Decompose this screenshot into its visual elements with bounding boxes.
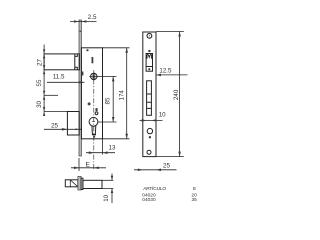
svg-text:13: 13	[109, 144, 116, 151]
latch bolt detail: head with bevel hatching	[65, 180, 78, 187]
svg-text:25: 25	[163, 163, 170, 170]
chain tick 95.5 extension	[44, 94, 58, 96]
svg-text:85: 85	[104, 97, 111, 104]
latch bolt seen in cutout	[147, 54, 152, 58]
vertical centerline (dash-dot)	[93, 70, 95, 171]
chain arrows	[43, 49, 45, 116]
dimension E	[71, 158, 106, 171]
dimension 12.5	[156, 67, 188, 76]
deadbolt segments	[147, 94, 152, 108]
latch detail dimension 10	[97, 174, 113, 204]
svg-text:E: E	[193, 186, 196, 192]
chain tick 111.5 extension (cylinder box top)	[44, 111, 79, 113]
front view: upper pin dot	[148, 50, 150, 52]
follower extension line to 85 dim	[97, 75, 117, 77]
dimension 25 (left)	[44, 122, 82, 130]
euro cylinder keyhole profile	[89, 117, 98, 134]
case top extension line to 174 dim	[103, 47, 130, 49]
latch rear stop block	[81, 72, 83, 76]
front view: top screw hole	[147, 33, 152, 38]
svg-text:25: 25	[51, 122, 58, 129]
svg-text:2.5: 2.5	[88, 14, 97, 21]
dimension 174	[119, 48, 129, 139]
cylinder housing box (left of plate)	[67, 112, 79, 136]
svg-text:11.5: 11.5	[53, 74, 65, 81]
svg-text:174: 174	[119, 90, 126, 101]
cylinder tail dot	[149, 136, 151, 138]
latch detail: faceplate cross-section	[78, 176, 81, 190]
latch lower pin dot	[148, 68, 150, 70]
latch slide inner collar	[75, 54, 78, 70]
svg-text:27: 27	[36, 59, 43, 66]
follower hub (crosshair circle)	[89, 72, 98, 81]
dimension 25 (plate width)	[134, 163, 177, 172]
svg-text:10: 10	[159, 112, 166, 119]
svg-text:ARTÍCULO: ARTÍCULO	[143, 185, 166, 192]
svg-text:E: E	[86, 161, 91, 168]
stop pin mark	[92, 57, 94, 63]
case screw dot	[88, 102, 91, 105]
dimension 10 (deadbolt width)	[140, 112, 167, 122]
side view: faceplate edge bar	[79, 20, 81, 156]
latch detail: follower washer	[81, 178, 83, 189]
side view: lock case outline	[81, 48, 102, 139]
svg-text:04030: 04030	[142, 197, 156, 203]
front view: faceplate outline	[143, 32, 156, 157]
dimension 240	[156, 32, 184, 157]
svg-text:35: 35	[192, 197, 198, 203]
cylinder cam dot	[92, 134, 96, 136]
dimension 2.5 (plate thickness)	[70, 14, 97, 23]
case rivet dot	[86, 49, 88, 51]
small hole above cylinder	[96, 108, 98, 111]
front view: deadbolt cutout	[147, 81, 152, 116]
plate rivet dot	[80, 31, 82, 33]
side view: latch slide box	[44, 54, 79, 70]
dimension 13	[86, 139, 116, 155]
svg-text:10: 10	[103, 194, 110, 201]
cylinder extension line to 85 dim	[98, 121, 117, 123]
front view: cylinder hole	[147, 128, 152, 133]
svg-text:55: 55	[36, 79, 43, 86]
latch cutout lower bridge	[146, 66, 152, 68]
left dimension chain line	[43, 45, 45, 115]
front view: latch cutout	[146, 54, 152, 72]
latch detail: bolt body	[83, 180, 102, 188]
front view: bottom screw hole	[147, 150, 151, 154]
dimension 85	[104, 76, 114, 122]
case bottom extension line to 174 dim	[103, 138, 130, 140]
svg-text:30: 30	[36, 100, 43, 107]
svg-text:240: 240	[173, 89, 180, 100]
svg-text:12.5: 12.5	[159, 67, 172, 74]
dimension 11.5	[47, 74, 85, 84]
article table	[142, 185, 197, 203]
